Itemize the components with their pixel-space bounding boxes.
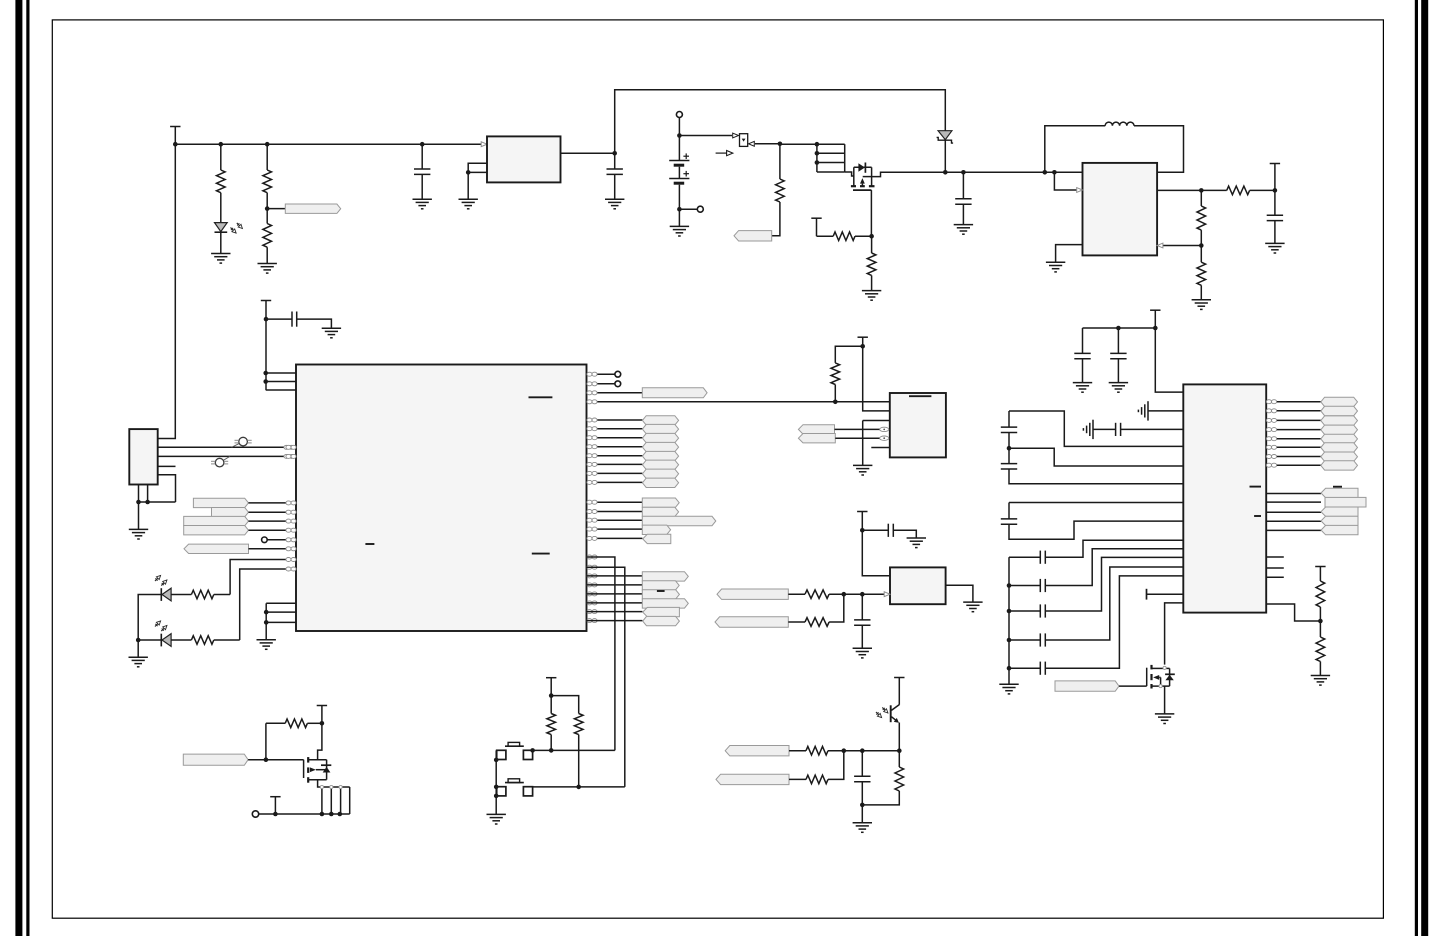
wire U1 output [561,152,615,154]
junction [264,317,269,322]
net flag [717,589,788,599]
wire [137,640,139,657]
page outer border bar right thin [1415,0,1418,936]
wire [678,167,680,178]
pin arrow [749,141,755,146]
pin arrow [1157,243,1163,248]
power flag [1150,310,1160,328]
junction [1199,188,1204,193]
ground [1311,676,1330,686]
net flag [184,526,249,535]
wire [587,428,643,430]
ground [605,199,624,209]
wire divider tap [267,208,285,210]
junction [136,500,141,505]
wire [1045,549,1183,586]
pin marker [587,400,597,404]
wire U4 out [1266,604,1320,621]
power flag [261,301,271,391]
junction [466,170,471,175]
capacitor C4 [1267,215,1283,220]
wire [587,392,643,394]
ground (rotated) [1083,420,1093,439]
wire [266,144,268,170]
wire [587,455,643,457]
pin marker [1266,455,1276,459]
junction [1007,666,1012,671]
SW2 pin pad [523,787,532,796]
redacted label [657,590,665,592]
net flag [642,572,688,581]
capacitor C17 [1040,604,1045,617]
wire [266,247,268,263]
ground [258,264,277,274]
wire [1200,230,1202,262]
capacitor C2 [607,169,623,174]
junction [815,160,820,165]
ground [999,684,1018,694]
pin marker [286,501,296,505]
wire U6 vdd pin [266,389,296,391]
ground [907,538,926,548]
wire [249,520,297,522]
pin marker [587,565,597,569]
junction [329,812,334,817]
junction [549,693,554,698]
pin arrow [733,133,739,138]
net flag [642,388,707,398]
wire [1082,359,1084,383]
wire U6 to button 1 [587,557,615,750]
wire [871,275,873,290]
phototransistor Q2 [891,705,900,751]
wire [1009,411,1183,446]
wire [1008,503,1010,519]
resistor R2 [263,170,272,193]
ground [211,254,230,264]
net flag [642,581,679,590]
wire main input rail [175,143,481,145]
wire [1009,667,1040,669]
junction [897,748,902,753]
wire [1009,469,1183,484]
wire [1009,610,1040,612]
junction [1273,188,1278,193]
wire [1266,493,1321,495]
ground [853,465,872,475]
junction [530,748,535,753]
junction [860,748,865,753]
ferrite bead FB1 [232,437,252,447]
direction arrow [716,151,733,156]
wire inductor loop [1045,126,1105,173]
wire [1266,419,1321,421]
junction [1007,638,1012,643]
pin marker [286,510,296,514]
pin marker [880,427,889,431]
wire [1274,221,1276,244]
resistor R3 [263,224,272,248]
pin marker [587,500,597,504]
pin marker [587,510,597,514]
resistor R11 [191,590,213,599]
wire U2 gnd [862,421,864,466]
redacted label [529,396,553,398]
junction [494,794,499,799]
wire [265,603,267,639]
resistor R12 [191,636,213,645]
wire [147,485,149,503]
ground [459,199,478,209]
pin marker [587,427,597,431]
wire [1083,327,1156,329]
pin marker [587,610,597,614]
junction [815,142,820,147]
capacitor C10 [1110,353,1126,358]
pin marker [1266,428,1276,432]
wire [1148,410,1183,412]
wire [1266,520,1321,522]
net flag BATT_EN [734,231,772,241]
inductor L1 [1105,122,1134,126]
junction [173,142,178,147]
wire [587,528,643,530]
redacted label [1333,486,1342,488]
wire [467,172,469,199]
wire U2 stub [871,447,890,449]
wire [248,759,304,761]
wire [495,750,497,814]
wire [1319,662,1321,676]
wire [828,750,862,752]
wire [863,420,890,422]
wire U4 stub [1266,556,1284,558]
junction [842,592,847,597]
wire U6 led1 [230,560,296,595]
wire [1121,428,1184,430]
wire [1266,446,1321,448]
wire [898,751,900,767]
wire [214,594,230,596]
net flag [642,424,678,433]
ground [413,199,432,209]
junction [219,142,224,147]
wire [171,594,191,596]
pin marker [587,445,597,449]
wire [139,501,176,503]
wire Q3 source [318,780,322,787]
wire J1 pin4 stub [158,465,176,467]
wire [550,696,552,714]
capacitor C11 [1116,423,1121,436]
wire [587,575,643,577]
junction [263,379,268,384]
LED D3 light arrows [155,575,167,585]
ground [1073,383,1092,393]
polarity marker box [740,134,748,147]
no-connect terminal [262,537,268,543]
wire [835,437,890,439]
wire [1008,411,1010,427]
page outer border bar right thick [1421,0,1428,936]
wire [587,419,643,421]
redacted label [1250,486,1262,488]
pin marker [286,528,296,532]
wire [249,502,297,504]
junction [273,812,278,817]
junction [1052,170,1057,175]
net flag [1321,443,1358,452]
resistor R10 [1197,262,1206,285]
wire [1082,328,1084,353]
wire [789,750,806,752]
pin arrow [1077,188,1083,193]
wire [944,140,946,172]
power flag [811,218,821,236]
ground [853,648,872,658]
ground [954,225,973,235]
wire [1266,464,1321,466]
sensor U2 [890,393,946,457]
wire [772,202,780,236]
wire [1266,529,1321,531]
pin marker [587,555,597,559]
wire [962,172,964,199]
ferrite bead FB2 [211,456,230,467]
pin marker [587,436,597,440]
junction [1007,446,1012,451]
LED D4 [161,634,171,647]
ground [670,226,689,236]
wire [297,319,332,328]
wire [834,385,836,402]
pin marker [284,454,294,458]
capacitor C14 [1001,519,1017,524]
junction [1007,609,1012,614]
net flag [1055,681,1119,691]
wire [817,235,834,237]
wire [1147,593,1184,595]
wire [893,530,916,538]
wire [468,171,487,173]
ground [129,657,148,667]
wire [1266,511,1321,513]
wire [587,620,643,622]
wire U6 vss pin [266,621,296,623]
wire [1009,448,1183,466]
junction [677,207,682,212]
redacted label [365,543,374,545]
ground [1109,383,1128,393]
power flag [1315,567,1325,582]
terminal post BT+ [676,112,682,118]
junction [265,142,270,147]
transistor Q3 N-FET [304,757,332,783]
junction [1007,583,1012,588]
ground [853,823,872,833]
wire U6 vdd pin [266,381,296,383]
resistor R1 [217,170,226,193]
wire U5 output [1157,189,1201,191]
pin arrow [884,592,890,597]
ground [257,640,276,650]
net flag [1321,434,1358,443]
junction [549,748,554,753]
wire [871,236,873,253]
junction [420,142,425,147]
light arrows [876,707,888,717]
pin marker [1266,463,1276,467]
pin marker [587,527,597,531]
no-connect terminal [615,381,621,387]
wire [1009,585,1040,587]
wire U6 to button 2 [587,567,625,787]
junction [494,785,499,790]
pin marker [587,418,597,422]
capacitor C6 [888,524,893,537]
sensor U3 [890,567,946,604]
wire U6 vss pin [266,602,296,604]
resistor R6 [833,232,855,241]
wire [1045,567,1183,640]
wire [1009,521,1183,539]
wire U4 to Q4 [1165,603,1184,665]
wire [1274,190,1276,215]
resistor R21 [285,719,307,728]
net flag [184,544,249,553]
resistor R15 [805,618,829,627]
pin marker [587,382,597,386]
power flag [546,678,556,696]
wire [220,193,222,223]
net flag [642,469,678,478]
wire [551,696,579,714]
pin marker [587,391,597,395]
transistor Q1 P-FET [851,163,875,191]
pin marker [587,462,597,466]
pin marker [1266,437,1276,441]
net flag [184,516,249,525]
capacitor C12 [1001,427,1017,432]
wire [1045,576,1183,668]
wire [550,735,552,751]
wire [249,548,297,550]
wire U4 supply [1155,328,1183,392]
junction [320,812,325,817]
net flag [642,460,678,469]
wire [307,722,322,724]
ground [129,529,148,539]
SW1 pin pad [497,750,506,759]
power flag [858,337,868,346]
wire [678,118,680,160]
wire [533,786,625,788]
ground [1265,243,1284,253]
pin marker [286,454,296,458]
wire to gate [845,172,854,176]
wire [171,639,191,641]
pin marker [880,436,889,440]
capacitor C1 [414,169,430,174]
battery BT1 cell 2 [669,171,689,183]
wire [220,144,222,170]
LED D4 light arrows [155,621,167,631]
junction [264,757,269,762]
wire Q1 gate down [870,190,872,236]
pin marker [587,480,597,484]
SW2 pin pad [497,787,506,796]
termination stub [1146,589,1148,600]
wire U4 stub [1266,576,1284,578]
junction [1116,326,1121,331]
terminal post [252,811,258,817]
junction [264,620,269,625]
wire [587,472,643,474]
wire [861,782,863,823]
ground [1155,714,1174,724]
resistor R16 [806,746,828,755]
no-connect terminal [615,371,621,377]
wire [220,232,222,253]
junction [494,758,499,763]
wire [1266,456,1321,458]
wire [587,511,643,513]
wire [1008,433,1010,464]
resistor R4 [776,179,785,202]
wire [679,208,697,210]
net flag [1321,507,1358,516]
wire top feed rail [615,90,946,154]
wire [1319,607,1321,637]
wire [1266,438,1321,440]
pin marker [286,558,296,562]
ground (rotated) [1138,401,1148,420]
resistor R20 [574,714,583,735]
junction [265,206,270,211]
power flag [317,706,327,724]
net flag [642,525,670,534]
junction [677,133,682,138]
ground [963,602,982,612]
junction [869,234,874,239]
wire [249,511,297,513]
microcontroller U6 [296,365,587,632]
terminal post BT- [697,206,703,212]
page outer border bar left thick [15,0,22,936]
wire rail to regulator 2 [945,171,1082,173]
wire Q4 source [1164,686,1166,714]
ground [1192,300,1211,310]
pin marker [587,574,597,578]
resistor R13 [831,363,840,385]
net flag [642,433,678,442]
wire [587,383,615,385]
net flag [1321,461,1358,470]
wire [835,428,890,430]
wire [587,537,643,539]
net flag [1321,452,1358,461]
power flag [894,678,904,705]
net flag [212,508,249,517]
wire [678,185,680,227]
net flag [643,534,671,543]
resistor R23 [1316,637,1325,662]
wire battery to gate network [755,143,817,145]
wire [587,501,643,503]
LED D1 light arrows [231,223,243,233]
wire [214,639,240,641]
wire J1 shield [138,485,140,530]
